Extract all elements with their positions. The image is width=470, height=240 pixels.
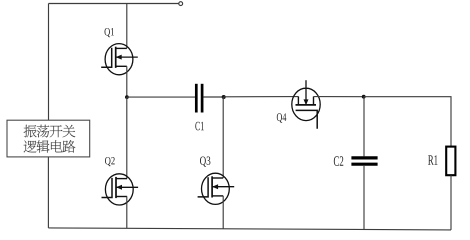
resistor R1 bbox=[446, 147, 455, 176]
node A junction dot bbox=[125, 95, 129, 99]
wire Q4 to node C bbox=[314, 96, 364, 98]
wire R1 to bottom rail bbox=[450, 175, 452, 230]
wire Q2 source to bottom rail bbox=[126, 197, 128, 229]
label C1 bbox=[195, 122, 204, 131]
capacitor C2 bottom plate bbox=[351, 163, 377, 166]
transistor Q1 bbox=[101, 44, 138, 75]
label Q4 bbox=[277, 113, 287, 123]
node B junction dot bbox=[222, 95, 226, 99]
transistor Q3 bbox=[198, 173, 235, 204]
wire left rail upper bbox=[48, 4, 50, 121]
wire node A down to Q2 bbox=[126, 97, 128, 179]
wire node A to C1 bbox=[127, 96, 195, 98]
label Q2 bbox=[105, 157, 115, 166]
wire node B down to Q3 bbox=[222, 97, 224, 178]
label Q3 bbox=[200, 156, 210, 166]
wire bottom rail bbox=[48, 228, 451, 230]
capacitor C2 top plate bbox=[351, 156, 377, 159]
wire C1 to node B bbox=[203, 96, 223, 98]
capacitor C1 left plate bbox=[195, 84, 198, 113]
wire Q1 source to node A bbox=[126, 66, 128, 97]
wire node C to top-right corner down to R1 bbox=[364, 97, 451, 147]
wire top rail bbox=[49, 3, 179, 5]
node C junction dot bbox=[362, 95, 366, 99]
wire node C down to C2 bbox=[363, 97, 365, 157]
capacitor C1 right plate bbox=[201, 84, 204, 113]
label C2 bbox=[334, 156, 344, 166]
wire Q1 drain lead bbox=[126, 4, 128, 49]
wire Q3 source to bottom rail bbox=[222, 196, 224, 229]
wire C2 to bottom rail bbox=[363, 166, 365, 230]
logic block text line 1 振荡开关 bbox=[24, 125, 76, 138]
transistor Q4 bbox=[292, 80, 320, 129]
label Q1 bbox=[104, 28, 114, 37]
terminal input open circle bbox=[179, 2, 183, 6]
wire left rail lower bbox=[47, 157, 49, 228]
logic block text line 2 逻辑电路 bbox=[24, 140, 76, 153]
logic block box 振荡开关逻辑电路 bbox=[7, 120, 90, 157]
wire node B to Q4 bbox=[224, 96, 299, 98]
label R1 bbox=[428, 155, 437, 164]
transistor Q2 bbox=[102, 174, 139, 205]
